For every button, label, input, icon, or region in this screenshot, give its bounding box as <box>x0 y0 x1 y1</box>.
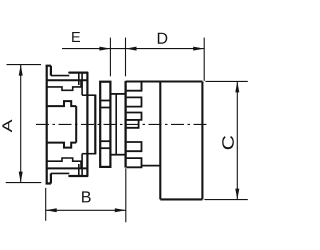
dimension C arrow up <box>235 81 239 92</box>
contact block internal line 4 <box>100 147 110 149</box>
dimension E/D arrow (points left at x=125.5) <box>126 47 137 51</box>
bezel top inner step with notch <box>47 80 81 90</box>
dimension E/D shared extension line <box>125 38 127 77</box>
dimension C arrow down <box>235 189 239 200</box>
plunger stem top edge <box>78 73 80 85</box>
thread tooth T4 <box>127 142 142 151</box>
thread tooth T3b (center) <box>127 120 139 128</box>
washer vertical <box>94 95 96 154</box>
bezel mid upper ledge with bump <box>47 101 76 106</box>
dimension B extension line right <box>125 168 127 222</box>
dimension A line <box>20 65 22 183</box>
washer step bottom line <box>82 153 96 155</box>
bezel mid lower ledge with bump <box>47 143 76 148</box>
contact block internal line 3 <box>100 140 110 142</box>
mid collar bottom line <box>110 154 125 156</box>
bezel flange bottom cap <box>46 173 51 183</box>
bezel top hook <box>69 71 87 73</box>
thread spine <box>124 81 126 168</box>
dimension C line <box>236 81 238 199</box>
body left edge <box>159 82 161 200</box>
contact block internal line 1 <box>100 100 110 102</box>
dimension B arrow right <box>115 208 126 212</box>
mid collar top line <box>110 93 125 95</box>
adapter bottom line <box>142 165 161 167</box>
bezel bottom inner step with notch <box>47 158 81 168</box>
bezel bottom ledge <box>47 167 88 169</box>
dimension E extension line left <box>109 38 111 77</box>
bezel cap lower ledge <box>51 75 69 77</box>
thread tooth T5 <box>127 158 142 167</box>
thread tooth T2 <box>127 97 142 106</box>
dimension B extension line left <box>45 188 47 221</box>
dimension D arrow (points right at x=204.2) <box>193 47 204 51</box>
thread tooth T1 <box>127 82 142 91</box>
dimension E/D line <box>62 48 204 50</box>
label A <box>2 120 12 133</box>
centerline <box>36 123 209 125</box>
dimension B arrow left <box>46 208 57 212</box>
dimension B line <box>46 209 126 211</box>
mid collar inner vertical <box>115 94 117 155</box>
bezel bottom hook inner step <box>81 154 83 176</box>
body right edge <box>201 82 203 200</box>
label E <box>72 32 80 42</box>
label C <box>222 136 234 149</box>
bezel flange top cap <box>46 66 51 76</box>
dimension D extension line right <box>203 38 205 81</box>
bezel flange outer edge <box>46 66 48 184</box>
dimension E arrow (points right at x=110.4) <box>99 47 110 51</box>
dimension A arrow down <box>19 172 23 183</box>
contact block outline <box>100 82 110 167</box>
dimension A extension line top <box>7 64 42 66</box>
dimension A arrow up <box>19 65 23 76</box>
dimension A extension line bottom <box>6 182 42 184</box>
dimension C extension line bottom <box>204 199 247 201</box>
label D <box>158 33 167 44</box>
adapter front vertical <box>141 82 143 91</box>
plunger stem bottom edge <box>78 164 80 176</box>
body bottom edge <box>160 198 202 200</box>
contact block internal line 2 <box>100 107 110 109</box>
thread tooth T3a <box>127 113 142 120</box>
bezel bottom hook <box>69 175 87 177</box>
washer step top line <box>82 94 96 96</box>
bezel mid right edge <box>75 106 77 143</box>
label B <box>82 191 91 202</box>
bezel top ledge <box>47 79 88 81</box>
bezel cap upper ledge (bottom) <box>51 172 69 174</box>
bezel right edge <box>86 73 88 176</box>
dimension C extension line top <box>205 80 247 82</box>
top face line to body <box>126 80 203 82</box>
bezel top hook inner step <box>81 73 83 96</box>
